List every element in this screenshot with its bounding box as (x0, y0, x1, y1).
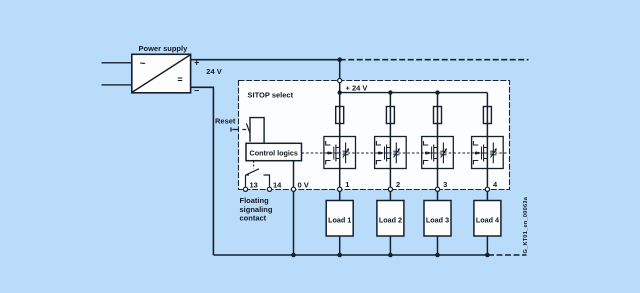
channel 1 wire (339, 93, 341, 188)
svg-text:=: = (177, 75, 182, 85)
bottom 0V rail solid (213, 254, 488, 256)
output terminal 1 (338, 187, 342, 191)
channel 3 wire (437, 93, 439, 188)
fuse F4 (483, 107, 491, 124)
0V wire to bottom rail (293, 191, 295, 255)
junction dot top rail (337, 57, 342, 62)
svg-text:signaling: signaling (240, 205, 273, 214)
bottom 0V rail dashed continuation (488, 254, 527, 256)
svg-text:1: 1 (345, 180, 349, 189)
floating signaling contact label (240, 196, 273, 223)
svg-text:24 V: 24 V (206, 67, 221, 76)
fuse F2 (386, 107, 394, 124)
MOSFET symbols module 4 (473, 141, 497, 165)
svg-text:Load 3: Load 3 (426, 215, 449, 224)
svg-text:Load 2: Load 2 (379, 215, 402, 224)
channel 2 wire (389, 93, 391, 188)
svg-text:Reset: Reset (215, 117, 236, 126)
svg-text:~: ~ (140, 59, 146, 70)
wire +24V top rail dashed continuation (340, 59, 529, 61)
svg-text:contact: contact (240, 214, 267, 223)
svg-text:Floating: Floating (240, 196, 270, 205)
wire minus output down left side (191, 87, 214, 255)
switching module 2 box (375, 137, 407, 169)
junction dot rail ch3 (435, 90, 439, 94)
svg-text:2: 2 (396, 180, 400, 189)
MOSFET symbols module 3 (424, 141, 448, 165)
power supply (132, 44, 191, 93)
AC input wire upper (102, 62, 132, 64)
load 3 (424, 201, 451, 237)
channel 4 wire (486, 93, 488, 188)
0V line (293, 161, 295, 188)
junction dot rail ch1 (338, 90, 342, 94)
internal +24V rail (340, 92, 488, 94)
svg-text:+ 24 V: + 24 V (346, 84, 368, 93)
svg-text:Power supply: Power supply (139, 44, 189, 53)
svg-text:13: 13 (250, 180, 258, 189)
signaling contact 13/14 (246, 169, 270, 187)
svg-text:Load 4: Load 4 (476, 215, 499, 224)
terminal 13 (243, 187, 247, 191)
load 1 (326, 201, 353, 237)
output terminal 4 (485, 187, 489, 191)
svg-text:SITOP select: SITOP select (248, 91, 294, 100)
svg-text:3: 3 (443, 180, 447, 189)
junction dot rail load4 (485, 253, 490, 258)
wire +24V top rail solid (191, 59, 340, 61)
reset block tab (250, 118, 264, 143)
junction dot rail load1 (337, 253, 342, 258)
output terminal 3 (435, 187, 439, 191)
reset switch blade (246, 123, 251, 137)
junction dot rail ch2 (388, 90, 392, 94)
terminal 14 (267, 187, 271, 191)
reset wire inside (242, 129, 246, 131)
load 4 (474, 201, 501, 237)
MOSFET symbols module 1 (326, 141, 350, 165)
module vertical wires overlay (339, 137, 341, 169)
junction dot rail load3 (435, 253, 440, 258)
switching module 3 box (422, 137, 454, 169)
fuse F1 (336, 107, 344, 124)
load 2 (377, 201, 404, 237)
wire +24V drop into enclosure (339, 60, 341, 79)
fuse wire overlays (339, 107, 341, 124)
svg-text:G_KT01_en_00063a: G_KT01_en_00063a (523, 196, 529, 253)
mechanical link dashed (253, 161, 255, 169)
switching module 4 box (472, 137, 504, 169)
control line (dashed) (302, 152, 508, 154)
reset input marker (230, 127, 232, 131)
switching module 1 box (324, 137, 356, 169)
SITOP select enclosure (dashed box) (239, 81, 510, 190)
control logics box (246, 143, 302, 160)
junction dot 0V rail (291, 253, 296, 258)
junction dot rail load2 (388, 253, 393, 258)
load drop wires (340, 191, 488, 255)
MOSFET symbols module 2 (376, 141, 400, 165)
AC input wire lower (102, 84, 132, 86)
svg-text:14: 14 (273, 180, 282, 189)
svg-text:0 V: 0 V (298, 180, 309, 189)
terminal +24V entry (338, 79, 342, 83)
svg-text:Control logics: Control logics (250, 148, 298, 157)
fuse F3 (434, 107, 442, 124)
terminal 0V (291, 187, 295, 191)
output terminal 2 (388, 187, 392, 191)
svg-text:Load 1: Load 1 (328, 215, 351, 224)
